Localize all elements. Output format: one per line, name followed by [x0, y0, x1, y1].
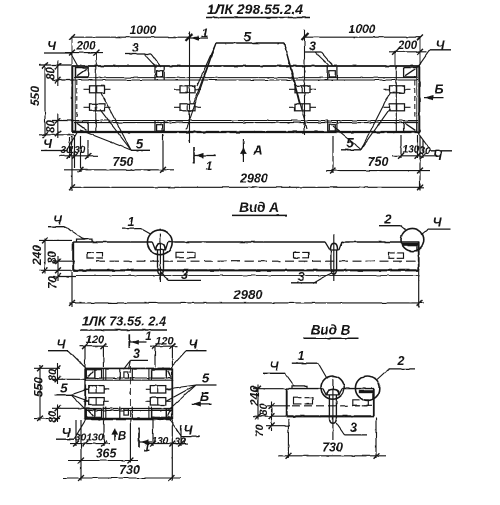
dimension 80 short bottom — [57, 404, 59, 422]
dimension 80 top-left — [57, 60, 59, 86]
corner assembly bottom-left short — [86, 409, 95, 418]
side view body — [73, 241, 152, 243]
detail circle 2 — [401, 228, 424, 251]
svg-text:550: 550 — [28, 86, 42, 106]
svg-text:120: 120 — [86, 334, 105, 346]
dimension 550 short — [39, 365, 41, 421]
svg-text:Ч: Ч — [57, 338, 67, 352]
section line 1-1 left — [189, 32, 191, 144]
embedded plates short left — [89, 386, 105, 393]
svg-text:2980: 2980 — [239, 172, 268, 186]
svg-text:3: 3 — [132, 41, 139, 55]
svg-text:3: 3 — [298, 270, 305, 284]
view V body — [287, 388, 323, 390]
lifting loop right pocket — [325, 242, 342, 250]
svg-text:Ч: Ч — [189, 338, 199, 352]
hidden plate edge dashed left — [76, 80, 78, 120]
svg-text:80: 80 — [46, 67, 58, 80]
svg-text:1: 1 — [206, 159, 213, 173]
svg-text:750: 750 — [368, 155, 389, 169]
embedded plate marks side view — [88, 253, 94, 258]
detail circle 1 — [147, 230, 172, 255]
axis dashed view V — [292, 405, 372, 407]
svg-text:3: 3 — [133, 347, 140, 361]
svg-text:365: 365 — [96, 447, 118, 461]
lifting loop right — [331, 243, 338, 250]
svg-text:В: В — [118, 431, 126, 443]
svg-text:80: 80 — [47, 410, 59, 423]
detail circle 1 view V — [321, 376, 344, 399]
svg-text:130: 130 — [86, 432, 104, 444]
svg-text:1ЛК 73.55. 2.4: 1ЛК 73.55. 2.4 — [82, 314, 166, 329]
corner angle bottom-left — [76, 122, 89, 131]
svg-text:730: 730 — [119, 463, 140, 477]
corner assembly top-right short — [152, 370, 167, 379]
svg-text:70: 70 — [48, 276, 60, 289]
dimension 80 view V — [271, 401, 273, 421]
corner plate in circle 2 — [402, 243, 419, 246]
svg-text:Ч: Ч — [47, 39, 57, 53]
svg-text:Ч: Ч — [433, 216, 443, 230]
svg-text:5: 5 — [136, 137, 144, 152]
corner angle top-right — [404, 68, 417, 77]
corner angle bump top-left — [77, 239, 93, 242]
corner bump view V — [292, 386, 307, 389]
svg-text:1000: 1000 — [130, 23, 157, 37]
corner angle top-left — [76, 68, 89, 77]
svg-text:Вид В: Вид В — [311, 323, 351, 338]
central rib plate top short — [119, 369, 121, 380]
svg-text:2: 2 — [397, 354, 405, 368]
band verticals short bottom — [102, 407, 104, 419]
svg-text:Ч: Ч — [270, 360, 280, 374]
section mark 1 top-left — [190, 37, 208, 39]
svg-text:5: 5 — [244, 30, 252, 45]
svg-text:730: 730 — [322, 441, 343, 455]
svg-text:750: 750 — [113, 155, 134, 169]
axis line short drawing — [129, 366, 131, 419]
svg-text:2: 2 — [384, 213, 392, 227]
rib plate top band right — [327, 67, 329, 81]
svg-text:Вид А: Вид А — [239, 200, 279, 215]
svg-text:200: 200 — [75, 41, 96, 53]
dimension 70 view A — [55, 274, 61, 280]
svg-text:80: 80 — [47, 251, 59, 264]
embedded plates group 2 — [180, 86, 195, 93]
section line 1-1 right — [304, 30, 306, 135]
svg-text:80: 80 — [46, 120, 58, 133]
corner assembly bottom-right short — [152, 409, 167, 418]
dimension 550 left — [44, 65, 46, 137]
svg-text:Б: Б — [200, 389, 209, 404]
section mark 1 top short — [128, 334, 130, 347]
svg-text:5: 5 — [60, 381, 68, 396]
svg-text:Ч: Ч — [62, 426, 72, 440]
section mark 1 bottom short — [138, 428, 140, 448]
corner angle bottom-right — [404, 122, 417, 131]
svg-text:А: А — [252, 143, 262, 158]
dimension 80 bottom-left — [57, 114, 59, 138]
svg-text:30: 30 — [419, 146, 431, 157]
lifting loop view V — [327, 389, 339, 394]
rib plate bottom band left — [154, 121, 156, 134]
rib plate bottom band right — [327, 121, 329, 134]
dimension 80 short top — [57, 363, 59, 384]
svg-text:1: 1 — [128, 215, 135, 229]
rib plate top band left — [154, 67, 156, 81]
svg-text:240: 240 — [30, 245, 44, 266]
view arrow A — [242, 139, 244, 162]
svg-text:3: 3 — [350, 421, 357, 435]
svg-text:1ЛК 298.55.2.4: 1ЛК 298.55.2.4 — [207, 1, 303, 17]
svg-text:1: 1 — [145, 331, 151, 343]
short plan body outline — [85, 367, 173, 369]
dimension 70 view V — [271, 421, 273, 431]
embedded plates group 1 — [90, 86, 105, 93]
hidden plate edge dashed right — [414, 80, 416, 120]
svg-text:5: 5 — [202, 371, 210, 386]
svg-text:Ч: Ч — [53, 214, 63, 228]
loop pocket view V — [323, 389, 342, 395]
svg-text:70: 70 — [254, 424, 266, 437]
svg-text:200: 200 — [397, 40, 418, 52]
svg-text:1: 1 — [202, 26, 209, 40]
end block line left — [95, 66, 97, 132]
lifting loop left — [156, 243, 165, 249]
svg-text:Б: Б — [434, 82, 443, 97]
dimension 240 view A — [44, 239, 46, 274]
embedded plate marks view V — [294, 398, 302, 404]
svg-text:80: 80 — [258, 403, 270, 416]
end block line right — [395, 66, 397, 132]
section mark 1 bottom-left — [193, 147, 195, 164]
svg-text:1: 1 — [298, 349, 305, 363]
band verticals short top — [102, 369, 104, 380]
central rib plate bottom short — [119, 407, 121, 419]
corner assembly top-left short — [86, 370, 95, 379]
plan body outline — [72, 65, 420, 67]
corner plate in circle 2 view V — [359, 390, 375, 393]
svg-text:2980: 2980 — [233, 287, 264, 302]
detail circle 2 view V — [355, 376, 379, 400]
embedded plates short right — [150, 386, 166, 393]
bottom far edge line — [76, 274, 418, 276]
svg-text:30: 30 — [174, 437, 186, 448]
view arrow V — [114, 428, 116, 440]
axis dashed line — [96, 260, 418, 262]
embedded plates group 4 — [390, 86, 405, 93]
dimension 240 view V — [257, 385, 259, 420]
embedded plates group 3 — [295, 86, 310, 93]
svg-text:Ч: Ч — [184, 424, 194, 438]
dimension 80 view A — [57, 256, 59, 281]
svg-text:Ч: Ч — [43, 137, 53, 151]
svg-text:1000: 1000 — [349, 22, 376, 36]
svg-text:550: 550 — [32, 377, 46, 397]
lifting loop left pocket — [152, 242, 168, 250]
